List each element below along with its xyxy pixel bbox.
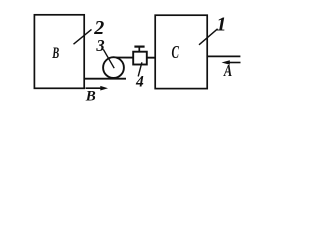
- leader line to 4: [138, 62, 142, 76]
- svg-text:4: 4: [135, 74, 144, 91]
- svg-text:В: В: [85, 88, 96, 104]
- wire: duct from box B to blower (bottom tangent): [84, 78, 126, 80]
- wire: outlet pipe right of box C: [207, 55, 240, 57]
- svg-text:2: 2: [93, 17, 104, 39]
- flow arrow A (pointing left): [226, 62, 241, 64]
- valve 4 stem: [138, 47, 140, 52]
- svg-text:1: 1: [216, 14, 226, 36]
- svg-text:С: С: [172, 42, 180, 62]
- leader line to 1: [199, 29, 218, 45]
- wire: blower outlet to valve to box C: [112, 57, 156, 59]
- svg-text:А: А: [223, 61, 232, 80]
- flow arrow B (pointing right): [86, 87, 103, 89]
- valve 4 handle T-bar: [134, 45, 144, 47]
- leader line to 2: [74, 29, 92, 44]
- apparatus box B (left): [34, 15, 84, 89]
- leader line to 3 (into circle centre): [103, 49, 114, 68]
- svg-text:В: В: [52, 45, 60, 62]
- apparatus box C (right): [155, 15, 207, 88]
- blower circle 3: [103, 57, 124, 78]
- valve 4 body: [133, 52, 147, 65]
